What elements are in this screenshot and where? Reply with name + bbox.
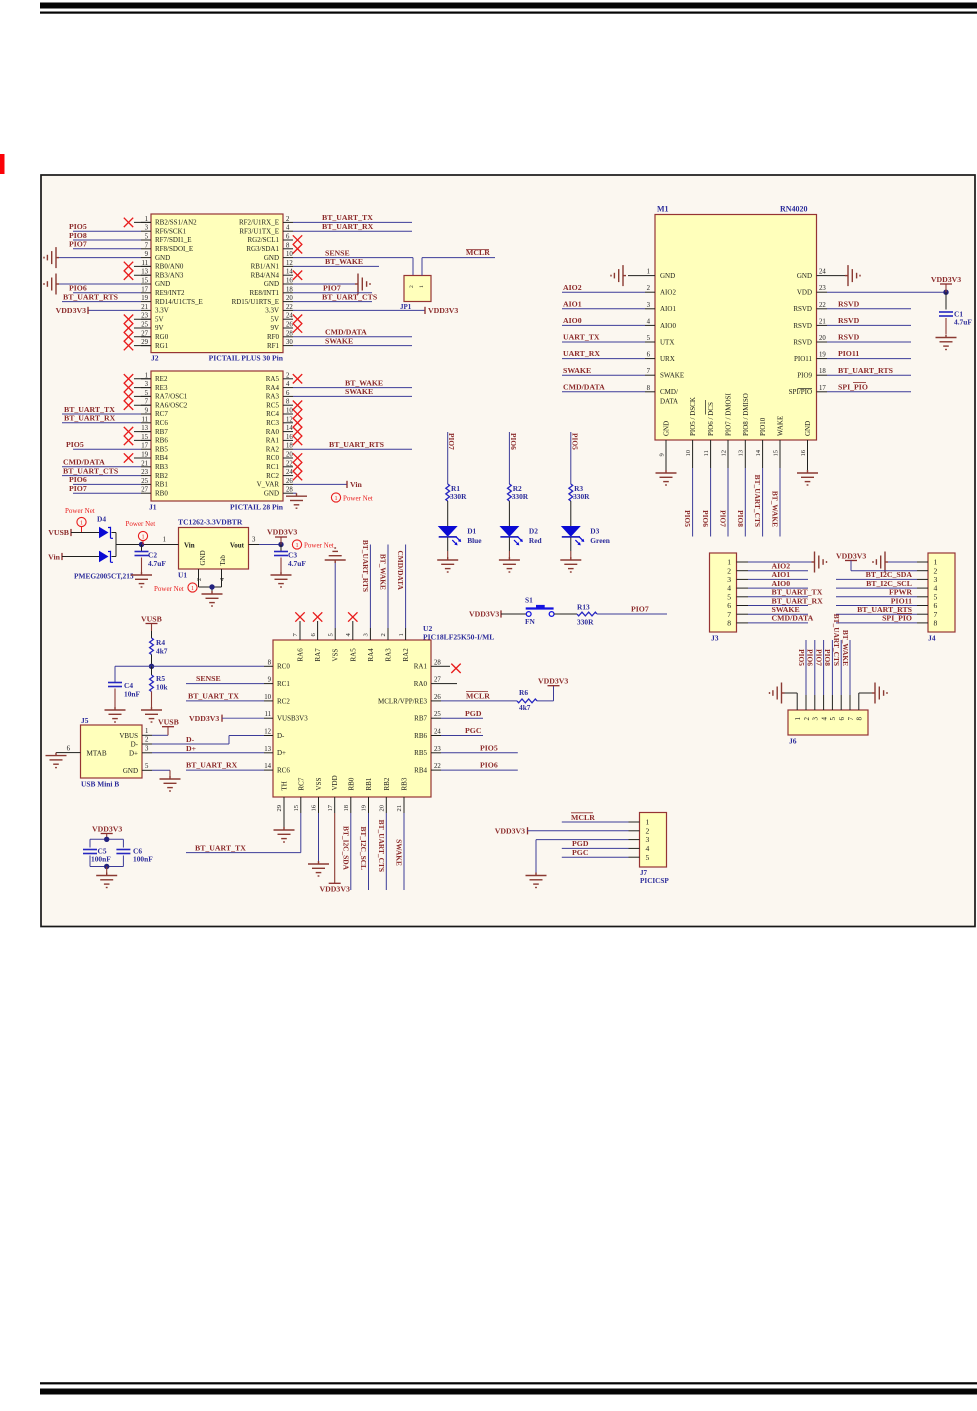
svg-text:UART_TX: UART_TX: [563, 333, 600, 342]
svg-text:RA1: RA1: [266, 437, 280, 445]
svg-text:GND: GND: [797, 272, 812, 280]
ground below C5 C6: [96, 873, 117, 888]
svg-text:VUSB: VUSB: [141, 615, 162, 624]
svg-text:Vin: Vin: [48, 553, 61, 562]
wire net AIO2 to M1 pin 2: [562, 283, 645, 292]
svg-text:VUSB: VUSB: [48, 528, 69, 537]
page header rule thin: [40, 12, 977, 14]
no-connect X J2 pin 14: [293, 271, 302, 280]
wire net PIO7 to LED column: [447, 432, 456, 484]
svg-text:BT_UART_RX: BT_UART_RX: [186, 761, 238, 770]
svg-text:CMD/DATA: CMD/DATA: [772, 614, 814, 623]
svg-text:4: 4: [286, 225, 290, 232]
no-connect X J1 pin 16: [293, 436, 302, 445]
svg-text:2: 2: [286, 372, 290, 379]
svg-text:13: 13: [141, 425, 148, 432]
LED D3 Green: [562, 527, 610, 546]
wire net PIO7 to J6 pin 4: [814, 640, 823, 695]
page footer rule thick: [40, 1389, 977, 1395]
svg-text:BT_UART_CTS: BT_UART_CTS: [377, 820, 386, 872]
svg-text:14: 14: [286, 425, 293, 432]
svg-text:4: 4: [647, 318, 651, 325]
svg-text:4.7uF: 4.7uF: [288, 559, 306, 568]
svg-text:27: 27: [141, 487, 148, 494]
svg-text:GND: GND: [264, 280, 279, 288]
svg-text:RC5: RC5: [266, 401, 279, 409]
wire net BT_UART_TX from J2 pin 2: [293, 213, 412, 222]
svg-text:BT_UART_RTS: BT_UART_RTS: [838, 366, 893, 375]
svg-text:Power Net: Power Net: [304, 541, 334, 549]
svg-text:RB5: RB5: [414, 749, 427, 757]
svg-text:23: 23: [434, 746, 441, 753]
svg-text:RC2: RC2: [277, 697, 290, 705]
svg-text:RB3: RB3: [155, 463, 168, 471]
svg-text:3: 3: [934, 575, 938, 584]
resistor R6 4k7: [517, 688, 537, 712]
svg-text:4: 4: [727, 584, 731, 593]
svg-text:GND: GND: [264, 489, 279, 497]
wire net BT_UART_RTS from U2 pin 3: [361, 540, 371, 628]
svg-text:VSS: VSS: [332, 649, 340, 662]
svg-text:RB4/AN4: RB4/AN4: [251, 271, 280, 279]
svg-text:BT_UART_CTS: BT_UART_CTS: [63, 466, 118, 475]
connector J3 body: [710, 553, 749, 643]
svg-text:2: 2: [646, 826, 650, 835]
svg-text:RA2: RA2: [402, 648, 410, 662]
svg-text:RC2: RC2: [266, 472, 279, 480]
svg-text:17: 17: [141, 286, 148, 293]
wire net PIO7 from J2 pin 18: [293, 284, 372, 293]
svg-text:RC6: RC6: [155, 419, 168, 427]
svg-text:RG0: RG0: [155, 333, 169, 341]
wire net BT_UART_RTS from M1 pin 18: [827, 366, 911, 375]
svg-text:3: 3: [252, 537, 256, 544]
ground J5 pin 5: [152, 770, 181, 791]
svg-text:4: 4: [820, 717, 828, 721]
svg-text:VDD3V3: VDD3V3: [836, 552, 866, 561]
svg-text:15: 15: [141, 278, 148, 285]
svg-text:PIO8 / DMISO: PIO8 / DMISO: [742, 393, 750, 436]
svg-text:RB6: RB6: [414, 732, 427, 740]
svg-text:PIO8: PIO8: [823, 649, 832, 666]
svg-text:Vout: Vout: [230, 541, 245, 549]
svg-text:PIC18LF25K50-I/ML: PIC18LF25K50-I/ML: [423, 633, 494, 642]
no-connect X J1 pin 15: [124, 436, 151, 445]
svg-text:RB1: RB1: [365, 777, 373, 790]
svg-text:SWAKE: SWAKE: [325, 336, 353, 345]
svg-text:RB6: RB6: [155, 437, 168, 445]
svg-text:2: 2: [727, 566, 731, 575]
power port VDD3V3 below U2 pin 17 VDD: [320, 813, 350, 894]
svg-text:BT_I2C_SCL: BT_I2C_SCL: [866, 579, 912, 588]
no-connect X J1 pin 20: [293, 453, 302, 462]
svg-text:11: 11: [264, 711, 271, 718]
svg-text:24: 24: [286, 313, 293, 320]
svg-text:PIO8: PIO8: [69, 231, 87, 240]
svg-text:3.3V: 3.3V: [155, 307, 169, 315]
wire net D- J5 pin 2 to U2 pin 12: [152, 735, 264, 744]
svg-text:3: 3: [145, 746, 149, 753]
svg-text:RB3/AN3: RB3/AN3: [155, 271, 184, 279]
svg-text:RC6: RC6: [277, 767, 290, 775]
svg-text:PIO7: PIO7: [323, 284, 341, 293]
svg-text:D2: D2: [529, 527, 538, 536]
svg-text:SWAKE: SWAKE: [772, 605, 800, 614]
capacitor C5 100nF: [83, 847, 111, 864]
svg-text:13: 13: [141, 269, 148, 276]
wire net MCLR from JP1 pin 2: [422, 248, 495, 275]
svg-text:Tab: Tab: [219, 555, 227, 566]
svg-text:CMD/DATA: CMD/DATA: [396, 550, 405, 590]
svg-text:PIO7: PIO7: [631, 605, 649, 614]
no-connect X J1 pin 24: [293, 471, 302, 480]
svg-text:330R: 330R: [512, 492, 529, 501]
wire D4 output to U1 Vin: [116, 542, 168, 547]
power port VDD3V3 at J2 pin 22: [293, 306, 458, 315]
svg-text:1: 1: [141, 534, 144, 541]
svg-text:29: 29: [141, 339, 148, 346]
svg-text:RE9/INT2: RE9/INT2: [155, 289, 185, 297]
svg-text:PIO7 / DMOSI: PIO7 / DMOSI: [725, 393, 733, 436]
wire net BT_WAKE from M1 pin 15: [771, 450, 780, 537]
svg-text:BT_WAKE: BT_WAKE: [841, 630, 850, 666]
svg-text:1: 1: [794, 717, 802, 721]
svg-text:CMD/: CMD/: [660, 388, 678, 396]
no-connect X J2 pin 8: [293, 244, 302, 253]
wire net PIO6 to J1 pin 25: [69, 475, 141, 484]
svg-text:GND: GND: [155, 254, 170, 262]
svg-text:9V: 9V: [270, 324, 279, 332]
svg-text:RF3/U1TX_E: RF3/U1TX_E: [239, 227, 279, 235]
svg-text:RF8/SDOI_E: RF8/SDOI_E: [155, 245, 193, 253]
svg-text:6: 6: [286, 234, 290, 241]
svg-text:PIO11: PIO11: [838, 349, 859, 358]
wire R5 to ground: [151, 692, 153, 708]
svg-text:D-: D-: [131, 741, 139, 749]
wire net CMD/DATA from J2 pin 28: [293, 328, 412, 337]
connector J6 body: [788, 695, 868, 746]
page footer rule thin: [40, 1382, 977, 1384]
svg-text:D3: D3: [590, 527, 599, 536]
wire net BT_UART_TX from U2 pin 15 RC7: [186, 813, 301, 853]
svg-text:1: 1: [80, 520, 83, 527]
svg-text:16: 16: [286, 278, 293, 285]
svg-text:10k: 10k: [156, 683, 168, 692]
svg-text:2: 2: [409, 285, 415, 288]
svg-text:RB1: RB1: [155, 481, 168, 489]
svg-text:8: 8: [727, 619, 731, 628]
no-connect X U2 pin 6: [313, 612, 322, 628]
ground J5 pin 6 shield: [46, 753, 71, 768]
no-connect X J1 pin 14: [293, 427, 302, 436]
svg-text:FN: FN: [525, 617, 536, 626]
svg-text:PIO6: PIO6: [69, 284, 87, 293]
ground J3 pin 1: [748, 552, 827, 573]
svg-text:BT_UART_RTS: BT_UART_RTS: [329, 440, 384, 449]
module M1 RN4020 body: [645, 205, 827, 457]
wire net PIO6 to LED column: [509, 432, 518, 484]
svg-text:RF7/SDI1_E: RF7/SDI1_E: [155, 236, 192, 244]
svg-text:4: 4: [646, 844, 650, 853]
svg-text:PIO5: PIO5: [797, 649, 806, 666]
red change-bar marker left margin: [0, 154, 5, 174]
svg-text:USB Mini B: USB Mini B: [81, 780, 119, 789]
svg-text:J7: J7: [640, 869, 648, 877]
no-connect X J2 pin 29: [124, 341, 151, 350]
svg-text:RC7: RC7: [155, 410, 168, 418]
ground M1 pin 9: [656, 450, 677, 485]
ground J2 pin 16: [293, 274, 370, 295]
ground M1 pin 24: [827, 265, 860, 286]
svg-text:RB7: RB7: [414, 715, 427, 723]
wire net PIO5 to J2 pin 3: [69, 222, 141, 231]
wire net BT_UART_CTS from U2 pin 20: [377, 813, 386, 890]
svg-text:10: 10: [286, 408, 293, 415]
svg-text:24: 24: [434, 729, 441, 736]
svg-text:JP1: JP1: [400, 303, 412, 311]
wire net SPI_PIO from M1 pin 17: [827, 382, 911, 391]
ground J6 pin 1: [770, 683, 798, 704]
svg-text:5V: 5V: [155, 315, 164, 323]
svg-text:VDD3V3: VDD3V3: [495, 826, 525, 835]
svg-text:30: 30: [286, 339, 293, 346]
svg-text:18: 18: [819, 368, 826, 375]
connector J5 USB Mini B body: [67, 716, 152, 789]
svg-text:19: 19: [819, 352, 826, 359]
svg-text:1: 1: [646, 818, 650, 827]
no-connect X J2 pin 24: [293, 315, 302, 324]
svg-text:GND: GND: [264, 254, 279, 262]
svg-text:AIO2: AIO2: [772, 562, 791, 571]
svg-text:RB5: RB5: [155, 445, 168, 453]
svg-text:15: 15: [141, 434, 148, 441]
wire node to C4: [115, 666, 152, 682]
svg-text:PIO7: PIO7: [447, 433, 456, 450]
svg-text:7: 7: [727, 610, 731, 619]
svg-text:U1: U1: [178, 571, 187, 580]
svg-text:AIO0: AIO0: [772, 579, 791, 588]
svg-text:J4: J4: [928, 634, 936, 643]
svg-text:RA1: RA1: [414, 663, 428, 671]
svg-text:BT_UART_TX: BT_UART_TX: [195, 844, 246, 853]
ground J1 pin 28: [286, 493, 307, 508]
svg-text:22: 22: [286, 304, 293, 311]
LED D2 Red: [500, 527, 542, 546]
svg-text:MCLR: MCLR: [466, 692, 490, 701]
svg-text:VBUS: VBUS: [119, 732, 138, 740]
svg-text:8: 8: [856, 717, 864, 721]
svg-text:330R: 330R: [573, 492, 590, 501]
wire net UART_TX to M1 pin 5: [562, 333, 645, 342]
no-connect X U2 pin 28: [441, 664, 461, 673]
svg-text:RF6/SCK1: RF6/SCK1: [155, 227, 187, 235]
wire net CMD/DATA from U2 pin 1: [396, 545, 406, 629]
svg-text:RA2: RA2: [266, 445, 280, 453]
diode D4 PMEG2005CT,215 dual schottky: [74, 515, 134, 581]
svg-text:BT_WAKE: BT_WAKE: [378, 554, 387, 590]
svg-text:8: 8: [647, 385, 651, 392]
svg-text:BT_UART_RX: BT_UART_RX: [772, 596, 824, 605]
svg-text:20: 20: [286, 452, 293, 459]
svg-text:S1: S1: [525, 596, 533, 605]
svg-text:PIO7: PIO7: [69, 240, 87, 249]
svg-text:RG2/SCL1: RG2/SCL1: [247, 236, 279, 244]
capacitor C4 10nF: [108, 681, 141, 707]
svg-text:3: 3: [145, 381, 149, 388]
svg-text:7: 7: [647, 368, 651, 375]
ground U2 pin 16 VSS: [308, 813, 329, 876]
svg-text:BT_WAKE: BT_WAKE: [771, 491, 780, 527]
switch S1 FN pushbutton: [525, 596, 577, 626]
wire C5 C6 to ground node: [90, 856, 123, 873]
svg-text:RD15/U1RTS_E: RD15/U1RTS_E: [232, 298, 279, 306]
wire net MCLR to J7 pin 1: [562, 813, 629, 822]
svg-text:D-: D-: [277, 732, 285, 740]
resistor R3 330R: [569, 484, 590, 501]
svg-text:RF2/U1RX_E: RF2/U1RX_E: [239, 219, 279, 227]
svg-text:Power Net: Power Net: [126, 520, 156, 528]
svg-text:4.7uF: 4.7uF: [148, 559, 166, 568]
svg-text:MCLR: MCLR: [571, 813, 595, 822]
no-connect X J1 pin 5: [124, 392, 151, 401]
svg-text:UART_RX: UART_RX: [563, 349, 600, 358]
svg-text:6: 6: [838, 717, 846, 721]
svg-text:9: 9: [145, 408, 149, 415]
resistor R1 330R: [446, 484, 467, 501]
wire net BT_UART_TX to U2 pin 10 RC2: [186, 692, 264, 701]
wire net BT_WAKE from J1 pin 4: [293, 378, 412, 387]
svg-text:2: 2: [380, 633, 387, 636]
svg-text:11: 11: [141, 416, 148, 423]
wire D3 cathode to ground: [570, 537, 572, 557]
wire net BT_UART_RX to U2 pin 14 RC6: [186, 761, 264, 770]
svg-text:5: 5: [145, 763, 149, 770]
no-connect X J2 pin 26: [293, 323, 302, 332]
svg-text:Power Net: Power Net: [154, 585, 184, 593]
svg-text:Power Net: Power Net: [343, 494, 373, 502]
wire net CMD/DATA from J3 pin 8: [748, 614, 814, 623]
wire net SWAKE to M1 pin 7: [562, 366, 645, 375]
svg-text:8: 8: [286, 399, 290, 406]
svg-text:16: 16: [800, 449, 807, 456]
svg-text:2: 2: [145, 737, 149, 744]
svg-text:BT_WAKE: BT_WAKE: [325, 257, 363, 266]
svg-text:DATA: DATA: [660, 397, 678, 405]
svg-text:24: 24: [819, 269, 826, 276]
no-connect X J2 pin 25: [124, 323, 151, 332]
wire net PIO8 from M1 pin 13: [736, 450, 745, 537]
svg-text:18: 18: [343, 804, 350, 811]
svg-text:8: 8: [934, 619, 938, 628]
svg-text:SENSE: SENSE: [325, 248, 350, 257]
power net marker 1 near VUSB: [65, 507, 95, 533]
svg-text:RF0: RF0: [267, 333, 280, 341]
svg-text:23: 23: [141, 469, 148, 476]
svg-text:PIO8: PIO8: [736, 510, 745, 527]
connector J1 PICTAIL 28 Pin body: [141, 371, 293, 512]
svg-text:5: 5: [727, 592, 731, 601]
svg-text:2: 2: [803, 717, 811, 721]
no-connect X J2 pin 13: [124, 271, 151, 280]
power port VDD3V3 above C5 C6: [92, 825, 122, 840]
svg-text:AIO1: AIO1: [563, 299, 582, 308]
ground below R5: [141, 707, 162, 722]
wire J7 pin 3 to ground: [536, 840, 629, 873]
wire net RSVD from M1 pin 20: [827, 333, 911, 342]
svg-text:MCLR/VPP/RE3: MCLR/VPP/RE3: [378, 697, 428, 705]
svg-text:J5: J5: [81, 716, 89, 725]
svg-text:23: 23: [819, 285, 826, 292]
svg-text:BT_UART_RX: BT_UART_RX: [322, 222, 374, 231]
svg-text:CMD/DATA: CMD/DATA: [325, 328, 367, 337]
svg-text:RD14/U1CTS_E: RD14/U1CTS_E: [155, 298, 203, 306]
wire net BT_I2C_SCL from J4 pin 4: [836, 579, 917, 588]
svg-text:Green: Green: [590, 536, 610, 545]
svg-text:2: 2: [196, 578, 203, 581]
svg-text:RC3: RC3: [266, 419, 279, 427]
svg-text:3: 3: [727, 575, 731, 584]
svg-text:Vin: Vin: [184, 541, 195, 549]
wire net SWAKE from J2 pin 30: [293, 336, 412, 345]
svg-text:2: 2: [647, 285, 651, 292]
svg-text:RB0/AN0: RB0/AN0: [155, 263, 184, 271]
svg-text:FPWR: FPWR: [889, 588, 912, 597]
wire net SENSE from J2 pin 10 to JP1 pin 1: [293, 248, 413, 275]
no-connect X J1 pin 3: [124, 383, 151, 392]
svg-text:18: 18: [286, 286, 293, 293]
wire net BT_UART_RX to J1 pin 11: [62, 414, 141, 423]
svg-text:PIO7: PIO7: [69, 484, 87, 493]
wire net PIO5 from U2 pin 23: [441, 743, 518, 752]
svg-text:PIO5: PIO5: [480, 743, 498, 752]
svg-text:AIO0: AIO0: [563, 316, 582, 325]
ground J2 pin 9: [44, 247, 141, 268]
power port VUSB above R4: [141, 615, 162, 639]
svg-text:3: 3: [646, 835, 650, 844]
no-connect X J2 pin 1: [124, 218, 151, 227]
wire net PIO5 from M1 pin 10: [683, 450, 692, 537]
svg-text:GND: GND: [155, 280, 170, 288]
svg-text:WAKE: WAKE: [777, 416, 785, 436]
svg-text:AIO2: AIO2: [660, 289, 676, 297]
svg-text:21: 21: [819, 318, 826, 325]
svg-text:23: 23: [141, 313, 148, 320]
svg-text:100nF: 100nF: [91, 855, 111, 864]
ground below C1: [936, 335, 957, 350]
svg-text:PIO6: PIO6: [806, 649, 815, 666]
svg-text:RA4: RA4: [367, 648, 375, 662]
wire net SENSE to U2 pin 9 RC1: [186, 674, 264, 683]
svg-text:3: 3: [812, 717, 820, 721]
svg-text:GND: GND: [663, 421, 671, 436]
svg-text:RA4: RA4: [266, 384, 280, 392]
svg-text:PIO6 / DCS: PIO6 / DCS: [707, 402, 715, 436]
svg-text:J3: J3: [711, 634, 719, 643]
power port VUSB at J5 VBUS: [152, 718, 179, 736]
no-connect X J1 pin 2: [293, 374, 302, 383]
wire net BT_I2C_SDA from U2 pin 18: [341, 813, 350, 890]
svg-text:AIO1: AIO1: [660, 305, 676, 313]
svg-text:BT_UART_TX: BT_UART_TX: [64, 405, 115, 414]
svg-text:RA5: RA5: [349, 648, 357, 662]
wire net PIO5 to J1 pin 17: [66, 440, 141, 449]
svg-text:RC0: RC0: [277, 663, 290, 671]
wire net PIO11 from J4 pin 6: [836, 596, 917, 605]
svg-text:PICTAIL PLUS 30 Pin: PICTAIL PLUS 30 Pin: [209, 354, 284, 363]
ground M1 pin 16: [797, 450, 818, 485]
svg-text:26: 26: [286, 322, 293, 329]
svg-text:RC4: RC4: [266, 410, 279, 418]
